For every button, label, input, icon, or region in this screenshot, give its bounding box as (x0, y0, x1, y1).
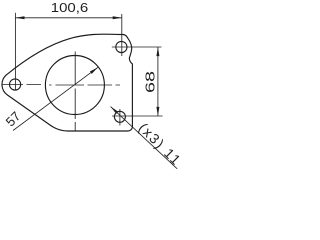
top dim left arrow (15, 16, 24, 19)
centerline horizontal central circle (49, 84, 120, 86)
central bore circle (45, 56, 104, 115)
hole top-right (116, 41, 127, 52)
68 bottom arrow (156, 107, 159, 116)
arrowheads (15, 16, 159, 116)
extension line left (vertical, from hole to top dim) (14, 13, 16, 90)
extension line 68 top (112, 46, 162, 48)
x3 arrow (pointing up-left) (111, 107, 119, 114)
extension line right hole (vertical) (121, 14, 123, 56)
leader 57 (13, 67, 98, 130)
57 arrow (on circle, pointing up-right) (90, 67, 98, 74)
top dim right arrow (113, 16, 122, 19)
crosshair vertical bottom-right hole (119, 109, 121, 126)
svg-text:(x3) 11: (x3) 11 (136, 120, 185, 169)
right dimension line 68 (157, 47, 159, 116)
top dimension line (15, 17, 121, 19)
hole left (10, 79, 21, 90)
flange outline (2, 34, 132, 131)
extension line 68 bottom (112, 115, 163, 117)
svg-text:57: 57 (3, 108, 24, 129)
hole bottom-right (114, 111, 125, 122)
svg-text:68: 68 (142, 71, 157, 93)
68 top arrow (156, 47, 159, 56)
centerline horizontal through left hole (2, 84, 41, 86)
svg-text:100,6: 100,6 (51, 1, 89, 15)
leader (x3) 11 (111, 107, 178, 169)
centerline vertical central circle (74, 52, 76, 132)
